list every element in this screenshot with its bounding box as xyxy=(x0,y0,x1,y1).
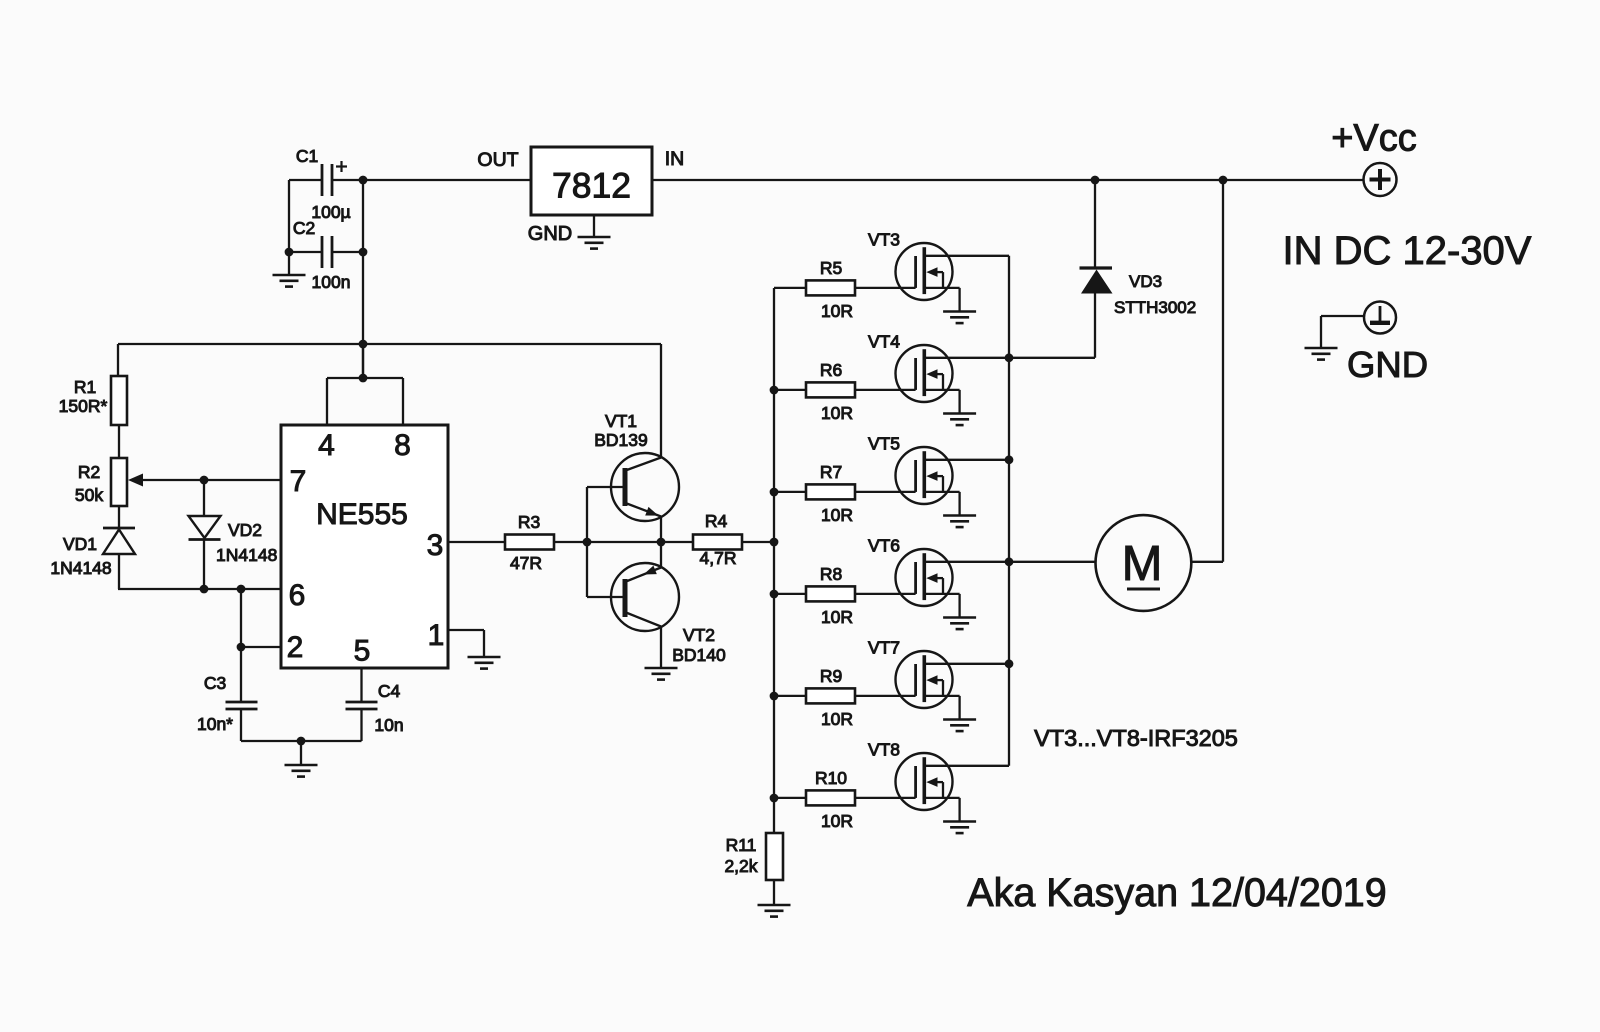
svg-text:Aka Kasyan 12/04/2019: Aka Kasyan 12/04/2019 xyxy=(967,871,1386,915)
svg-text:R11: R11 xyxy=(726,835,757,855)
svg-text:R6: R6 xyxy=(820,360,842,380)
svg-text:NE555: NE555 xyxy=(316,498,408,531)
svg-text:150R*: 150R* xyxy=(59,396,108,416)
svg-text:VT4: VT4 xyxy=(868,332,900,352)
svg-text:3: 3 xyxy=(427,529,444,562)
svg-text:10R: 10R xyxy=(821,403,853,423)
svg-text:VT7: VT7 xyxy=(868,638,900,658)
svg-text:10R: 10R xyxy=(821,709,853,729)
svg-text:M: M xyxy=(1122,537,1163,591)
svg-text:R4: R4 xyxy=(705,511,728,531)
svg-text:1N4148: 1N4148 xyxy=(50,558,111,578)
svg-text:C4: C4 xyxy=(378,681,401,701)
svg-text:C1: C1 xyxy=(296,146,318,166)
svg-text:VD3: VD3 xyxy=(1129,272,1162,291)
svg-text:R8: R8 xyxy=(820,564,842,584)
svg-text:47R: 47R xyxy=(510,553,542,573)
svg-text:7: 7 xyxy=(290,465,307,498)
svg-text:7812: 7812 xyxy=(552,166,631,206)
svg-text:R2: R2 xyxy=(78,462,100,482)
svg-text:C3: C3 xyxy=(204,673,226,693)
svg-text:VT5: VT5 xyxy=(868,434,900,454)
svg-text:10n*: 10n* xyxy=(197,714,233,734)
svg-text:VT3: VT3 xyxy=(868,230,900,250)
svg-text:STTH3002: STTH3002 xyxy=(1114,298,1196,317)
svg-text:1N4148: 1N4148 xyxy=(216,545,277,565)
svg-text:VT3...VT8-IRF3205: VT3...VT8-IRF3205 xyxy=(1034,725,1238,751)
svg-text:2,2k: 2,2k xyxy=(724,856,757,876)
svg-text:10R: 10R xyxy=(821,301,853,321)
svg-text:6: 6 xyxy=(289,579,306,612)
svg-text:VT6: VT6 xyxy=(868,536,900,556)
svg-text:100n: 100n xyxy=(312,272,351,292)
svg-text:10n: 10n xyxy=(374,715,403,735)
svg-text:8: 8 xyxy=(394,429,411,462)
svg-text:R9: R9 xyxy=(820,666,842,686)
svg-text:5: 5 xyxy=(354,635,371,668)
svg-text:50k: 50k xyxy=(75,485,103,505)
svg-text:VT1: VT1 xyxy=(605,411,637,431)
svg-text:R1: R1 xyxy=(74,377,96,397)
svg-text:4,7R: 4,7R xyxy=(700,548,737,568)
svg-text:C2: C2 xyxy=(293,218,315,238)
svg-text:VT8: VT8 xyxy=(868,740,900,760)
svg-text:2: 2 xyxy=(287,631,304,664)
svg-text:OUT: OUT xyxy=(477,149,518,171)
svg-text:R7: R7 xyxy=(820,462,842,482)
svg-text:IN DC 12-30V: IN DC 12-30V xyxy=(1283,229,1532,273)
svg-text:R5: R5 xyxy=(820,258,842,278)
svg-text:10R: 10R xyxy=(821,505,853,525)
svg-text:R10: R10 xyxy=(815,768,847,788)
svg-text:GND: GND xyxy=(528,223,572,245)
svg-text:+Vcc: +Vcc xyxy=(1331,118,1417,160)
svg-text:BD140: BD140 xyxy=(672,645,726,665)
svg-text:10R: 10R xyxy=(821,811,853,831)
svg-text:4: 4 xyxy=(318,429,335,462)
svg-text:GND: GND xyxy=(1347,344,1428,385)
svg-text:100µ: 100µ xyxy=(311,202,350,222)
svg-text:1: 1 xyxy=(428,619,445,652)
svg-text:VT2: VT2 xyxy=(683,625,715,645)
svg-text:VD2: VD2 xyxy=(228,520,262,540)
svg-text:BD139: BD139 xyxy=(594,430,648,450)
svg-text:VD1: VD1 xyxy=(63,534,97,554)
svg-text:IN: IN xyxy=(665,148,685,170)
svg-text:R3: R3 xyxy=(518,512,540,532)
svg-text:10R: 10R xyxy=(821,607,853,627)
